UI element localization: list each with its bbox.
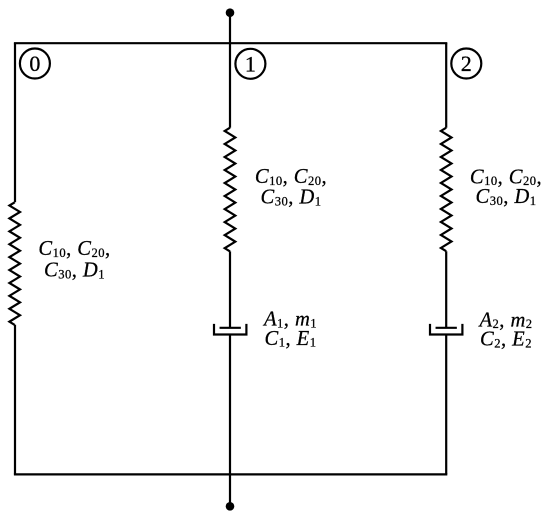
svg-text:0: 0: [29, 51, 40, 76]
svg-text:C30​, D1​: C30​, D1​: [261, 187, 322, 209]
svg-text:2: 2: [461, 51, 472, 76]
svg-text:C30​, D1​: C30​, D1​: [476, 186, 537, 208]
svg-text:1: 1: [245, 51, 256, 76]
svg-text:C2​, E2​: C2​, E2​: [480, 329, 532, 351]
svg-text:C1​, E1​: C1​, E1​: [265, 328, 317, 350]
svg-text:C30​, D1​: C30​, D1​: [44, 260, 105, 282]
